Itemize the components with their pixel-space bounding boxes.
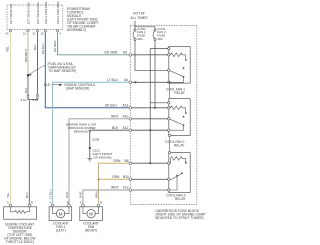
svg-text:YEL: YEL	[5, 46, 9, 52]
fuse F2 value label "COOL FAN 2 FUSE 30A"	[157, 27, 166, 41]
svg-text:HOT AT: HOT AT	[133, 12, 145, 16]
svg-text:A10: A10	[123, 115, 129, 119]
svg-text:BLK: BLK	[25, 192, 29, 198]
coolant fan 1 motor M1 box	[49, 207, 72, 221]
hot at all times label	[130, 12, 148, 21]
svg-text:DK BLU: DK BLU	[41, 43, 45, 54]
svg-text:RELAY: RELAY	[175, 197, 186, 201]
relay K2 coil	[168, 102, 187, 114]
svg-text:A4: A4	[124, 78, 128, 82]
svg-text:FAN 2 CONTROL: FAN 2 CONTROL	[56, 1, 60, 24]
fuse F1 output wire to relay K1 common	[135, 41, 169, 71]
junction dot LT BLU	[135, 81, 137, 83]
junction dot fuse F2 output to DK BLU node	[154, 107, 156, 109]
junction dot LT BLU to relay K1 output	[169, 81, 171, 83]
wire WHT fan1 return	[69, 119, 130, 204]
underhood fuse block dashed box	[130, 25, 197, 204]
PCM pin numbers	[6, 32, 62, 36]
svg-text:LT BLU: LT BLU	[48, 189, 52, 199]
relay K3 coil	[168, 157, 187, 165]
svg-text:S108: S108	[92, 138, 100, 142]
svg-text:ORN/BLK: ORN/BLK	[24, 49, 28, 62]
fan 1 motor leads	[53, 207, 69, 214]
svg-text:WHT: WHT	[65, 191, 69, 198]
junction dot bus to BLK A12	[149, 129, 151, 131]
svg-text:DK BLU: DK BLU	[105, 104, 118, 108]
coolant fan 2 motor M2 box	[80, 207, 103, 221]
svg-text:A: A	[80, 200, 82, 204]
PCM module dashed box	[7, 5, 63, 30]
svg-text:RELAY: RELAY	[174, 144, 185, 148]
wire DK BLU vertical	[45, 32, 130, 108]
fan 1 label	[53, 222, 69, 233]
svg-text:ORN: ORN	[94, 191, 98, 198]
junction dot ORN B10 to fan 2 drop	[98, 178, 100, 180]
svg-text:BLK: BLK	[112, 126, 119, 130]
wire labels horizontal runs	[105, 51, 130, 190]
fan 2 motor terminals (pins A, B)	[82, 204, 100, 207]
fan 1 pin letters	[50, 200, 69, 204]
wire ORN B10 to relay 3 common	[99, 178, 131, 180]
svg-text:43: 43	[6, 32, 9, 36]
relay K3 switch	[168, 172, 183, 180]
wire ORN B6 to relay 3 coil	[99, 163, 131, 204]
svg-text:21: 21	[23, 32, 26, 36]
svg-text:ECT SENS GND: ECT SENS GND	[36, 2, 40, 24]
underhood fuse block text	[156, 209, 208, 220]
feed bus into fuses	[135, 21, 155, 30]
fan 1 motor symbol	[56, 210, 64, 218]
fuse F2 output wire down to DK BLU node	[154, 41, 156, 108]
svg-text:19: 19	[40, 32, 43, 36]
ECT sensor pin letters	[7, 200, 33, 204]
wire YEL (ECT signal)	[10, 32, 12, 204]
annotation arrow to fuel inj text	[29, 65, 46, 75]
PCM text label block	[67, 7, 99, 32]
svg-text:LT BLU: LT BLU	[107, 78, 118, 82]
relay K3 top feed terminal	[168, 151, 170, 153]
ECT sensor terminals (pins A, B)	[9, 204, 31, 207]
svg-text:(MAP SENSOR): (MAP SENSOR)	[66, 87, 89, 91]
relay K2 (COOL FAN 2 RELAY) box	[169, 99, 190, 136]
wire DK GRN	[58, 32, 130, 55]
splice S137 junction dot	[27, 74, 29, 76]
relay K3 label	[166, 193, 186, 201]
fan 2 motor symbol	[87, 210, 95, 218]
svg-text:A12: A12	[123, 126, 129, 130]
relay K1 (COOL FAN 1 RELAY) box	[169, 47, 190, 84]
svg-text:B: B	[100, 200, 102, 204]
svg-text:DK GRN: DK GRN	[105, 51, 118, 55]
svg-text:(RIGHT): (RIGHT)	[85, 229, 97, 233]
relay K2 label	[165, 140, 185, 148]
relay K2 switch	[168, 116, 185, 132]
svg-text:(LEFT): (LEFT)	[56, 229, 66, 233]
relay K1 coil	[168, 47, 187, 61]
svg-text:M: M	[89, 211, 93, 216]
svg-text:FAN 1 CONTROL: FAN 1 CONTROL	[44, 1, 48, 24]
breakout note text	[66, 123, 96, 134]
svg-text:B: B	[31, 200, 33, 204]
svg-text:B10: B10	[123, 175, 129, 179]
wire BLK ground from fuse block	[90, 130, 169, 158]
svg-text:BLK: BLK	[33, 44, 37, 50]
svg-text:THROTTLE BODY): THROTTLE BODY)	[6, 240, 34, 244]
svg-text:4: 4	[60, 32, 62, 36]
relay K3 (COOL FAN 3 RELAY) box	[169, 153, 190, 193]
PCM pin function labels (rotated)	[9, 1, 60, 24]
svg-text:YEL: YEL	[6, 192, 10, 198]
svg-text:M: M	[59, 211, 63, 216]
svg-text:ASSEMBLY): ASSEMBLY)	[67, 28, 86, 32]
relay K2 output terminal on bottom edge	[168, 134, 170, 136]
ground G112	[87, 158, 92, 161]
relay K1 switch	[168, 67, 185, 83]
svg-text:A5: A5	[123, 51, 127, 55]
svg-text:F12: F12	[123, 186, 129, 190]
ECT thermistor symbol	[11, 207, 30, 213]
wire BLK branch 2	[37, 32, 39, 94]
series link wire relay K2 output to relay K3 feed	[169, 137, 171, 153]
relay K1 label	[166, 87, 186, 95]
splice S108	[89, 147, 91, 149]
svg-text:A13: A13	[123, 104, 129, 108]
fan 2 pin letters	[80, 200, 102, 204]
fan 2 label	[83, 222, 99, 233]
wire color labels lower (rotated)	[6, 189, 98, 199]
svg-text:BREAKOUT): BREAKOUT)	[74, 130, 91, 134]
svg-text:DK GRN: DK GRN	[53, 41, 57, 52]
relay K3 NC contact branch	[168, 175, 178, 191]
svg-text:ECT SENS GND: ECT SENS GND	[26, 2, 30, 24]
svg-text:BLK: BLK	[24, 87, 28, 93]
fan 2 motor leads	[83, 207, 99, 214]
svg-text:A: A	[50, 200, 52, 204]
fuse F1 value label "COOL FAN 1 FUSE 30A"	[137, 27, 146, 41]
wire BLK branch 1	[27, 32, 29, 75]
fuse 1	[133, 29, 136, 41]
svg-text:WHT: WHT	[111, 186, 119, 190]
svg-text:ECT SENS SIG: ECT SENS SIG	[9, 3, 13, 24]
ECT sensor text	[4, 223, 36, 245]
svg-text:2.8L: 2.8L	[33, 98, 39, 102]
svg-text:ORN: ORN	[113, 159, 121, 163]
svg-text:B: B	[67, 200, 69, 204]
svg-text:2.5L: 2.5L	[21, 98, 27, 102]
svg-text:31: 31	[33, 32, 36, 36]
svg-text:TO MAP SENSOR): TO MAP SENSOR)	[49, 69, 77, 73]
wire color labels upper (rotated)	[5, 41, 57, 93]
svg-text:OF ENGINE): OF ENGINE)	[94, 156, 112, 160]
svg-text:RELAY: RELAY	[174, 91, 185, 95]
relay K1 output wire down to relay K2	[169, 83, 171, 99]
wire LT BLU horizontal and drop to fan 1	[53, 82, 130, 204]
wire WHT F12 to fan 2	[83, 190, 130, 204]
coil return bus wire	[150, 49, 169, 164]
junction dot bus to relay K3 coil row	[149, 162, 151, 164]
ECT sensor box	[4, 207, 37, 219]
2.5L/2.8L inline connectors	[27, 94, 38, 98]
svg-text:A: A	[7, 200, 9, 204]
PCM pin connectors	[9, 29, 58, 31]
svg-text:WHT: WHT	[79, 191, 83, 198]
fuse 2	[153, 29, 156, 41]
svg-text:MOUNTED TO STRUT TOWER): MOUNTED TO STRUT TOWER)	[156, 216, 204, 220]
fuse block edge connectors	[129, 54, 132, 192]
svg-text:B6: B6	[125, 159, 129, 163]
svg-text:WHT: WHT	[111, 115, 119, 119]
wire BLK to ECT sensor	[28, 100, 30, 205]
svg-text:ALL TIMES: ALL TIMES	[130, 16, 148, 20]
svg-text:ORN: ORN	[112, 175, 120, 179]
fan 1 motor terminals (pins A, B)	[51, 204, 70, 207]
